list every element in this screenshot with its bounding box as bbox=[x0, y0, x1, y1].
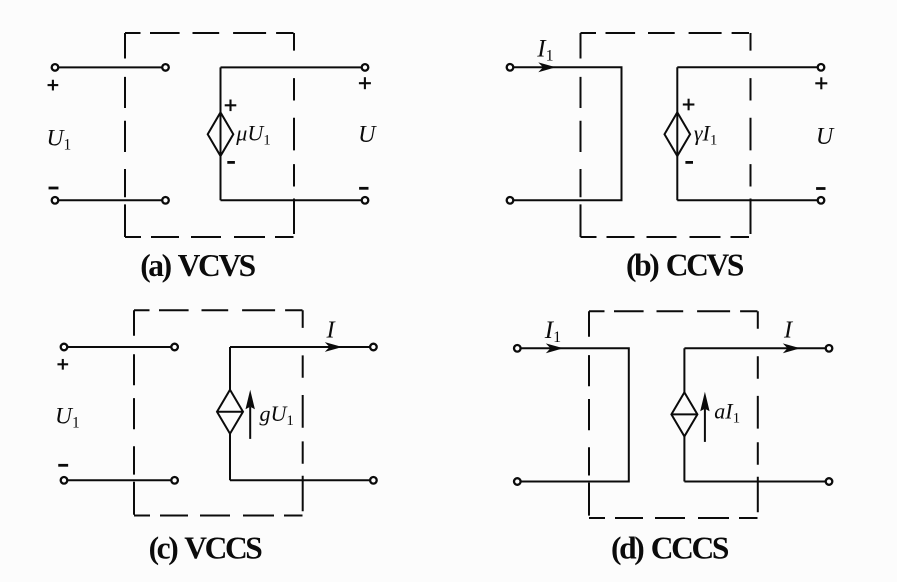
terminal input + (c) bbox=[61, 344, 68, 351]
wire output top (d) bbox=[684, 347, 829, 349]
wire output - (a) bbox=[221, 199, 366, 201]
terminal inner - (a) bbox=[162, 197, 169, 204]
dependent voltage source muU1 (a) bbox=[208, 112, 234, 156]
svg-text:(d) CCCS: (d) CCCS bbox=[611, 531, 729, 566]
wire output + (b) bbox=[677, 66, 821, 68]
terminal output - (b) bbox=[818, 197, 825, 204]
terminal input - (a) bbox=[52, 197, 59, 204]
polarity - of source (a) bbox=[227, 161, 235, 164]
wire source branch vertical (d) bbox=[683, 348, 685, 481]
wire output bottom (d) bbox=[684, 481, 829, 483]
wire input - lead (c) bbox=[64, 479, 175, 481]
arrow I direction (c) bbox=[325, 342, 343, 352]
wire input current loop (d) bbox=[517, 348, 629, 481]
wire input + lead (c) bbox=[64, 346, 175, 348]
dependent voltage source gammaI1 (b) bbox=[665, 112, 691, 156]
wire output - (b) bbox=[677, 199, 821, 201]
arrow aI1 direction (d) bbox=[700, 392, 709, 442]
polarity + of U1 (a) bbox=[48, 80, 59, 91]
polarity - of U (a) bbox=[359, 187, 368, 190]
wire input + lead (a) bbox=[55, 66, 166, 68]
wire output + (a) bbox=[221, 66, 366, 68]
terminal inner + (c) bbox=[171, 344, 178, 351]
terminal input - (c) bbox=[61, 477, 68, 484]
polarity - of U1 (a) bbox=[49, 187, 59, 190]
terminal output + (a) bbox=[362, 64, 369, 71]
dashed two-port box (c) bbox=[134, 310, 303, 515]
svg-text:U: U bbox=[358, 122, 377, 148]
wire source branch vertical (a) bbox=[220, 67, 222, 200]
wire source branch vertical (c) bbox=[229, 347, 231, 480]
terminal output bottom (c) bbox=[370, 477, 377, 484]
polarity - of U (b) bbox=[816, 187, 825, 190]
svg-text:U: U bbox=[816, 124, 835, 150]
dashed two-port box (a) bbox=[125, 33, 294, 237]
wire source branch vertical (b) bbox=[676, 67, 678, 200]
polarity + of U (b) bbox=[815, 77, 827, 89]
dashed two-port box (d) bbox=[589, 311, 758, 518]
arrow I direction (d) bbox=[783, 343, 801, 353]
polarity + of U1 (c) bbox=[57, 359, 68, 370]
arrow gU1 direction (c) bbox=[246, 390, 255, 439]
terminal input bottom (d) bbox=[514, 478, 521, 485]
polarity - of source (b) bbox=[685, 161, 693, 164]
terminal input + (a) bbox=[52, 64, 59, 71]
arrow I1 direction (b) bbox=[538, 62, 556, 72]
polarity + of U (a) bbox=[359, 77, 371, 89]
terminal input top (d) bbox=[514, 345, 521, 352]
svg-text:(a) VCVS: (a) VCVS bbox=[140, 248, 255, 283]
terminal output top (d) bbox=[826, 345, 833, 352]
terminal output - (a) bbox=[362, 197, 369, 204]
wire input current loop (b) bbox=[510, 67, 622, 200]
terminal inner - (c) bbox=[171, 477, 178, 484]
svg-text:(c) VCCS: (c) VCCS bbox=[149, 531, 263, 566]
terminal input bottom (b) bbox=[507, 197, 514, 204]
wire output bottom (c) bbox=[230, 479, 373, 481]
terminal input top (b) bbox=[507, 64, 514, 71]
terminal output top (c) bbox=[370, 344, 377, 351]
dashed two-port box (b) bbox=[581, 33, 751, 237]
wire input - lead (a) bbox=[55, 199, 166, 201]
terminal output bottom (d) bbox=[826, 478, 833, 485]
polarity + of source (a) bbox=[225, 100, 237, 112]
dependent current source gU1 (c) bbox=[217, 390, 243, 434]
polarity + of source (b) bbox=[683, 99, 695, 111]
terminal inner + (a) bbox=[162, 64, 169, 71]
terminal output + (b) bbox=[818, 64, 825, 71]
svg-text:(b) CCVS: (b) CCVS bbox=[626, 248, 744, 283]
polarity - of U1 (c) bbox=[58, 464, 68, 467]
dependent current source aI1 (d) bbox=[671, 392, 697, 436]
wire output top (c) bbox=[230, 346, 373, 348]
arrow I1 direction (d) bbox=[546, 343, 564, 353]
